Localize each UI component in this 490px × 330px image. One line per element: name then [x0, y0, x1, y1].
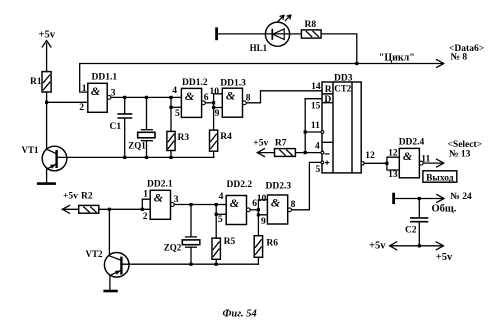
node DD1.3 input junction upper — [212, 101, 215, 104]
svg-text:R: R — [325, 85, 332, 95]
logic gate DD2.3 — [257, 182, 296, 227]
wire Select output arrow — [423, 159, 444, 167]
svg-text:C2: C2 — [405, 226, 417, 236]
svg-text:3: 3 — [174, 195, 179, 205]
svg-text:DD1.3: DD1.3 — [220, 78, 246, 88]
node R5/pin5 junction — [215, 213, 218, 216]
node C2 top junction — [418, 197, 421, 200]
wire Общ. line with № 24 arrow — [395, 195, 444, 203]
svg-text:C1: C1 — [110, 122, 122, 132]
transistor Q1: VT1 — [22, 145, 67, 182]
counter DD3 — [322, 73, 361, 173]
wire DD1.2 output to DD1.3 inputs — [205, 102, 213, 104]
wire oscillator bottom rail (VT1 base) — [57, 156, 214, 158]
node bus/pin11 — [304, 130, 307, 133]
resistor R7 — [257, 138, 295, 156]
svg-text:R5: R5 — [224, 237, 236, 247]
wire R7 to DD3 pin 4 — [295, 151, 323, 154]
wire R1 to VT1 collector — [46, 92, 48, 149]
svg-text:DD2.4: DD2.4 — [399, 137, 425, 147]
crystal ZQ2 — [164, 205, 200, 265]
svg-text:10: 10 — [257, 194, 267, 204]
logic gate DD2.1 — [143, 180, 179, 223]
svg-text:"Цикл": "Цикл" — [379, 52, 415, 63]
svg-text:2: 2 — [79, 103, 84, 113]
resistor R5 with DD2.2 pin5 jog — [212, 205, 235, 265]
node DD1.3 input junction lower — [212, 106, 215, 109]
svg-text:HL1: HL1 — [250, 43, 268, 53]
logic gate DD1.2 — [172, 78, 209, 119]
svg-text:№ 24: № 24 — [450, 192, 472, 202]
svg-text:13: 13 — [388, 170, 398, 180]
wire DD2.1 output to DD2.2 pin 4 — [174, 204, 226, 206]
wire DD1.3 pin10/pin9 jog and R4 drop — [214, 94, 223, 130]
op-amp U1: logic gate DD1.1 — [79, 73, 117, 114]
svg-text:11: 11 — [311, 121, 320, 131]
label Выход box — [423, 171, 457, 184]
wire HL1 branch — [218, 33, 301, 35]
node R1/pin2 junction — [45, 101, 48, 104]
svg-text:R3: R3 — [178, 133, 190, 143]
wire R2 to DD2.1 pin 2 — [99, 208, 150, 210]
node C1 tap — [123, 96, 126, 99]
wire junction to DD1.1 pin 2 — [47, 101, 88, 103]
wire DD2.1 pin 1 jog — [142, 199, 150, 209]
svg-text:№ 8: № 8 — [451, 53, 468, 63]
svg-text:DD3: DD3 — [334, 73, 353, 83]
wire DD3 pin 12 output — [361, 151, 387, 165]
resistor R2 — [62, 191, 98, 213]
terminal bar (Общ.) — [392, 193, 395, 204]
node ZQ2 tap — [189, 203, 192, 206]
node VT2 base branch — [108, 208, 111, 211]
svg-text:R6: R6 — [266, 239, 278, 249]
svg-text:&: & — [271, 195, 281, 209]
svg-text:4: 4 — [219, 192, 224, 202]
LED HL1 — [250, 15, 291, 53]
transistor Q2: VT2 — [86, 209, 130, 289]
svg-text:&: & — [403, 149, 413, 163]
svg-text:Общ.: Общ. — [432, 203, 457, 214]
svg-text:12: 12 — [365, 151, 375, 161]
svg-text:5: 5 — [218, 215, 223, 225]
wire +5v rail (double arrow) — [390, 242, 444, 250]
svg-text:R1: R1 — [30, 77, 42, 87]
svg-text:DD1.2: DD1.2 — [182, 78, 208, 88]
svg-text:9: 9 — [215, 109, 220, 119]
svg-text:8: 8 — [246, 94, 251, 104]
svg-text:+5v: +5v — [63, 191, 78, 201]
svg-text:VT2: VT2 — [86, 249, 104, 259]
svg-text:Выход: Выход — [426, 173, 454, 183]
resistor R6 — [254, 236, 278, 265]
svg-text:1: 1 — [82, 84, 87, 94]
node R5 tap — [215, 203, 218, 206]
svg-text:DD2.1: DD2.1 — [147, 180, 173, 190]
svg-text:10: 10 — [210, 87, 220, 97]
svg-text:9: 9 — [261, 217, 266, 227]
svg-text:R8: R8 — [305, 20, 317, 30]
node DD2.4 input junction — [385, 162, 388, 165]
wire DD3 pin 15 (D) — [305, 98, 322, 100]
wire DD2.3 pin10/pin9 jog and R6 drop — [258, 200, 267, 236]
wire oscillator 2 bottom rail (VT2 base) — [121, 263, 258, 265]
svg-text:&: & — [154, 191, 164, 205]
node C2 bottom junction — [418, 244, 421, 247]
svg-text:R2: R2 — [81, 191, 93, 201]
svg-text:&: & — [226, 89, 236, 103]
svg-text:CT2: CT2 — [334, 83, 352, 93]
svg-text:5: 5 — [315, 165, 320, 175]
logic gate DD2.4 — [388, 137, 430, 180]
resistor R8 — [301, 20, 321, 38]
+5v supply arrow (top left) — [39, 29, 56, 71]
svg-text:VT1: VT1 — [22, 145, 40, 155]
svg-text:&: & — [91, 84, 101, 98]
wire DD3 pin 11 — [305, 131, 324, 134]
svg-text:4: 4 — [172, 86, 177, 96]
svg-text:№ 13: № 13 — [449, 149, 471, 159]
node R3 rail junction — [169, 156, 172, 159]
node ZQ2 rail junction — [189, 263, 192, 266]
resistor R3 with DD1.2 pin5 jog — [167, 97, 189, 157]
svg-text:6: 6 — [204, 93, 209, 103]
svg-text:DD1.1: DD1.1 — [92, 73, 118, 83]
svg-text:1: 1 — [143, 190, 148, 200]
node R3/pin5 junction — [169, 106, 172, 109]
resistor R4 — [210, 130, 233, 157]
svg-text:Фиг. 54: Фиг. 54 — [223, 308, 257, 319]
svg-text:+5v: +5v — [436, 252, 453, 263]
svg-text:14: 14 — [311, 82, 321, 92]
node bus/pin4 — [304, 151, 307, 154]
wire DD3 input bus — [304, 99, 306, 153]
wire DD2.3 output to DD3 pin 5 — [292, 161, 324, 210]
ground (VT1 emitter) — [37, 182, 56, 185]
wire DD1.1 output to DD1.2 pin 4 — [111, 96, 181, 98]
svg-text:12: 12 — [388, 149, 398, 159]
terminal bar (HL1) — [215, 27, 218, 40]
wire DD2.2 output to DD2.3 inputs — [250, 209, 258, 211]
node DD2.3 input junction upper — [257, 208, 260, 211]
svg-text:&: & — [185, 89, 195, 103]
svg-text:DD2.2: DD2.2 — [227, 180, 253, 190]
svg-text:DD2.3: DD2.3 — [266, 182, 292, 192]
capacitor C2 — [405, 199, 428, 246]
logic gate DD1.3 — [210, 78, 251, 119]
node R5 rail junction — [215, 263, 218, 266]
svg-text:&: & — [230, 196, 240, 210]
wire feedback line to Цикл arrow — [80, 60, 444, 93]
node ZQ1 rail junction — [145, 156, 148, 159]
node C1 rail junction — [123, 156, 126, 159]
node DD2.3 input junction lower — [257, 213, 260, 216]
wire DD1.3 output to DD3 R input (pin 14) — [246, 91, 322, 103]
svg-text:8: 8 — [291, 200, 296, 210]
svg-text:R7: R7 — [275, 138, 287, 148]
ground (VT2 emitter) — [103, 290, 117, 293]
svg-text:15: 15 — [311, 101, 321, 111]
svg-text:R4: R4 — [220, 132, 232, 142]
svg-text:ZQ2: ZQ2 — [164, 242, 182, 252]
wire DD2.4 input jog — [387, 157, 399, 170]
capacitor C1 — [110, 97, 133, 157]
svg-text:4: 4 — [315, 142, 320, 152]
logic gate DD2.2 — [218, 180, 257, 225]
svg-text:+5v: +5v — [369, 240, 386, 251]
node R3 tap — [169, 96, 172, 99]
node ZQ1 tap — [145, 96, 148, 99]
svg-text:+5v: +5v — [253, 139, 268, 149]
svg-text:ZQ1: ZQ1 — [128, 141, 146, 151]
node HL1 branch junction — [355, 62, 358, 65]
crystal ZQ1 — [128, 97, 155, 157]
wire R8 to feedback line — [321, 34, 357, 64]
svg-text:+5v: +5v — [39, 29, 56, 40]
svg-text:2: 2 — [143, 212, 148, 222]
svg-text:D: D — [324, 95, 331, 105]
resistor R1 — [30, 72, 51, 92]
node DD2.1 pin1 jog junction — [141, 208, 144, 211]
svg-text:5: 5 — [175, 109, 180, 119]
